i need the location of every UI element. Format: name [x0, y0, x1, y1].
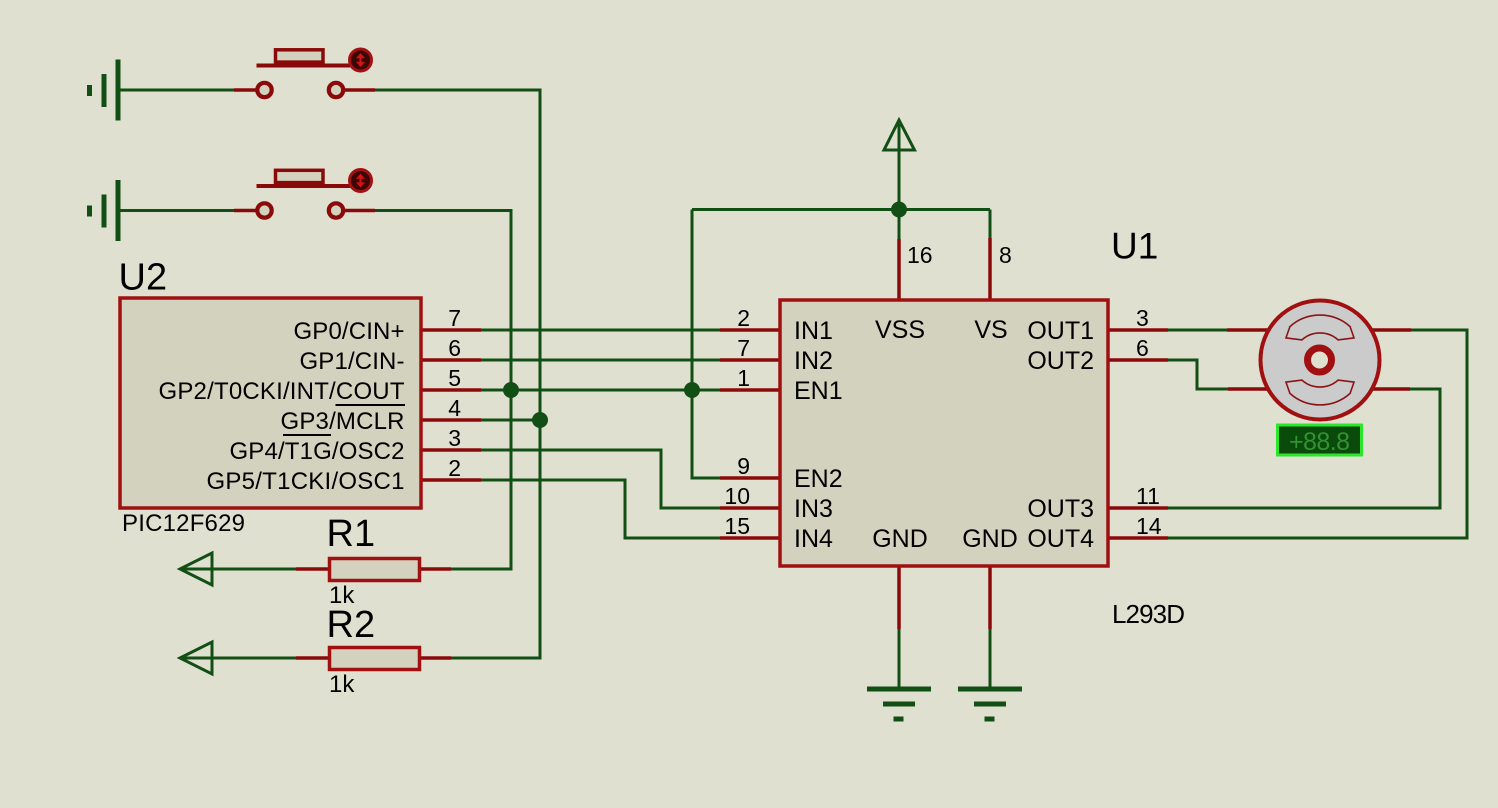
svg-text:IN3: IN3 — [794, 495, 833, 523]
svg-text:1: 1 — [737, 365, 750, 391]
svg-text:GP5/T1CKI/OSC1: GP5/T1CKI/OSC1 — [207, 468, 405, 495]
svg-text:1k: 1k — [329, 671, 355, 698]
svg-text:10: 10 — [724, 483, 750, 509]
svg-text:EN2: EN2 — [794, 465, 843, 493]
svg-text:15: 15 — [724, 513, 750, 539]
svg-text:IN4: IN4 — [794, 525, 833, 553]
svg-text:L293D: L293D — [1112, 599, 1185, 629]
svg-text:7: 7 — [448, 305, 461, 331]
svg-text:11: 11 — [1136, 483, 1160, 509]
svg-text:GND: GND — [962, 525, 1018, 553]
svg-text:PIC12F629: PIC12F629 — [122, 510, 245, 537]
svg-text:9: 9 — [737, 453, 750, 479]
svg-text:GP0/CIN+: GP0/CIN+ — [294, 318, 405, 345]
svg-text:2: 2 — [737, 305, 750, 331]
svg-text:3: 3 — [448, 425, 461, 451]
svg-text:3: 3 — [1136, 305, 1149, 331]
svg-text:EN1: EN1 — [794, 377, 843, 405]
svg-text:VSS: VSS — [875, 316, 925, 344]
svg-text:U1: U1 — [1111, 226, 1158, 267]
svg-text:IN1: IN1 — [794, 317, 833, 345]
svg-text:R1: R1 — [327, 513, 376, 555]
svg-text:U2: U2 — [119, 257, 168, 299]
svg-text:GP1/CIN-: GP1/CIN- — [300, 348, 405, 375]
svg-text:OUT2: OUT2 — [1027, 347, 1094, 375]
svg-text:16: 16 — [907, 242, 933, 268]
svg-text:GP2/T0CKI/INT/COUT: GP2/T0CKI/INT/COUT — [159, 378, 405, 405]
svg-text:6: 6 — [1136, 335, 1149, 361]
svg-text:R2: R2 — [327, 604, 376, 646]
svg-text:OUT4: OUT4 — [1027, 525, 1094, 553]
svg-text:GND: GND — [872, 525, 928, 553]
svg-text:7: 7 — [737, 335, 750, 361]
svg-text:14: 14 — [1136, 513, 1162, 539]
svg-text:8: 8 — [999, 242, 1012, 268]
svg-text:IN2: IN2 — [794, 347, 833, 375]
svg-text:OUT3: OUT3 — [1027, 495, 1094, 523]
svg-text:GP4/T1G/OSC2: GP4/T1G/OSC2 — [230, 438, 405, 465]
svg-text:2: 2 — [448, 455, 461, 481]
svg-text:GP3/MCLR: GP3/MCLR — [281, 408, 405, 435]
svg-text:5: 5 — [448, 365, 461, 391]
svg-text:6: 6 — [448, 335, 461, 361]
svg-text:VS: VS — [974, 316, 1007, 344]
svg-text:+88.8: +88.8 — [1289, 428, 1350, 456]
svg-text:4: 4 — [448, 395, 461, 421]
svg-text:OUT1: OUT1 — [1027, 317, 1094, 345]
